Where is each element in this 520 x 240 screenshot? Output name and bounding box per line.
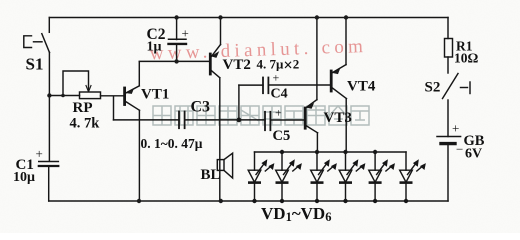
wire VT3 collector to rail	[316, 18, 318, 100]
resistor R1	[445, 39, 453, 58]
wire C4 to VT4 base	[269, 84, 331, 86]
battery GB	[437, 137, 461, 144]
svg-text:VT2: VT2	[223, 57, 251, 73]
transistor VT1	[125, 86, 140, 111]
wire C4 branch vertical	[238, 85, 240, 120]
svg-text:10μ: 10μ	[13, 170, 35, 185]
wire VT1 collector to VT2 base	[139, 60, 209, 62]
wire C3 left	[114, 119, 180, 121]
wire C4 left	[239, 84, 263, 86]
node LED bus d5	[373, 150, 377, 154]
svg-text:+: +	[182, 26, 189, 41]
wire GB to bottom rail	[447, 145, 449, 201]
svg-text:−: −	[456, 142, 463, 157]
svg-text:S2: S2	[425, 80, 441, 96]
capacitor C1	[39, 162, 59, 167]
LED VD1	[248, 152, 274, 203]
wire VT4 collector to rail	[345, 18, 347, 65]
node C2 bottom junction	[174, 59, 178, 63]
watermark gray glyphs	[153, 106, 369, 125]
svg-text:C3: C3	[191, 99, 211, 116]
node VT4 rail	[344, 15, 348, 19]
wire RP branch	[49, 95, 79, 97]
node VT2 rail	[218, 15, 222, 19]
svg-text:BL: BL	[201, 167, 221, 183]
LED VD6	[400, 152, 426, 203]
wire bottom rail	[49, 200, 448, 202]
node C2 top rail	[174, 15, 178, 19]
svg-text:C4: C4	[271, 87, 288, 102]
wire C3 to C5	[185, 119, 265, 121]
capacitor C2	[169, 18, 187, 62]
potentiometer RP	[80, 92, 101, 99]
wire LED bus	[255, 151, 407, 153]
speaker BL	[217, 153, 232, 178]
svg-text:VT3: VT3	[324, 110, 352, 126]
svg-text:VD1~VD6: VD1~VD6	[261, 204, 331, 224]
wire VT3 emitter to LED bus	[316, 133, 318, 152]
wire R1 to S2	[447, 57, 449, 73]
svg-text:6V: 6V	[465, 147, 482, 162]
capacitor C5	[265, 112, 270, 130]
wire right branch top (rail to R1)	[447, 18, 449, 39]
node LED bus d3	[315, 150, 319, 154]
svg-text:VT1: VT1	[141, 87, 169, 103]
wire top rail	[49, 17, 448, 19]
wire C1 to bottom rail	[48, 167, 50, 201]
wire VT4 emitter to LED bus	[345, 99, 347, 152]
wire S2 to GB	[447, 100, 449, 137]
svg-text:+: +	[273, 71, 280, 85]
svg-text:+: +	[36, 146, 43, 161]
watermark red url	[149, 36, 367, 65]
svg-text:10Ω: 10Ω	[454, 51, 479, 66]
node BL bottom rail	[219, 199, 223, 203]
svg-text:S1: S1	[26, 55, 44, 74]
wire S1 to C1	[48, 53, 50, 162]
wire VT1 emitter down	[138, 110, 140, 201]
node C4 branch junction	[237, 118, 242, 123]
LED VD4	[339, 152, 365, 203]
node LED bus d2	[280, 150, 284, 154]
switch S2	[443, 74, 471, 99]
svg-text:RP: RP	[73, 100, 93, 116]
svg-text:+: +	[275, 106, 282, 120]
LED VD5	[369, 152, 395, 203]
node RP junction	[47, 93, 51, 97]
svg-text:+: +	[452, 121, 459, 136]
LED VD2	[276, 152, 302, 203]
wire VT1 base stub down	[113, 97, 115, 120]
node LED bus d4	[343, 150, 347, 154]
LED VD3	[311, 152, 337, 203]
wire VT2 emitter down through BL	[219, 78, 221, 201]
node RP loop junction	[61, 94, 65, 98]
svg-text:C5: C5	[273, 128, 291, 144]
svg-text:VT4: VT4	[347, 79, 376, 95]
transistor VT3	[305, 100, 317, 133]
switch S1	[24, 34, 50, 53]
wire VT1 collector up	[138, 62, 140, 86]
transistor VT2	[210, 45, 220, 78]
transistor VT4	[331, 65, 346, 99]
wire VT2 collector to rail	[220, 18, 222, 45]
svg-text:0. 1~0. 47μ: 0. 1~0. 47μ	[141, 136, 203, 151]
wire RP wiper loop	[63, 71, 91, 96]
capacitor C4	[263, 78, 268, 94]
wire left branch top	[48, 18, 50, 33]
wire RP to VT1 base	[101, 95, 124, 97]
node VT3 rail	[315, 15, 319, 19]
node VT1 emitter bottom	[137, 199, 141, 203]
wire C5 to VT3 base	[271, 119, 305, 121]
svg-text:1μ: 1μ	[147, 40, 162, 55]
capacitor C3	[179, 112, 185, 129]
svg-text:4. 7k: 4. 7k	[70, 116, 101, 132]
